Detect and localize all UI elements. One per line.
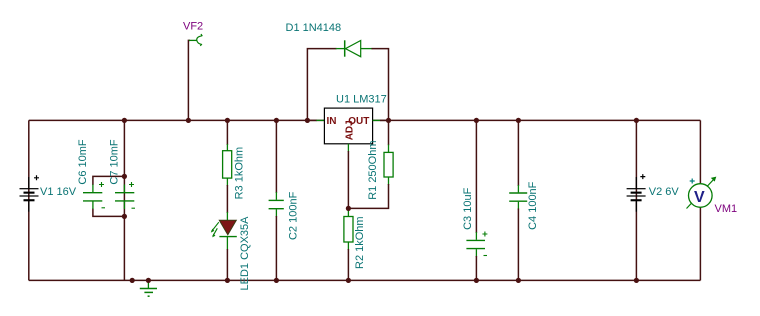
svg-text:V: V bbox=[694, 189, 705, 206]
resistor R1 bbox=[367, 140, 393, 199]
svg-text:IN: IN bbox=[327, 116, 337, 127]
svg-text:VF2: VF2 bbox=[183, 21, 203, 33]
svg-text:C3 10uF: C3 10uF bbox=[462, 187, 474, 229]
wire R1 top lead bbox=[388, 120, 390, 145]
node bottom left bbox=[130, 278, 135, 283]
battery V1 bbox=[20, 175, 77, 211]
node ground bbox=[146, 278, 151, 283]
resistor R2 bbox=[344, 208, 366, 269]
svg-text:U1 LM317: U1 LM317 bbox=[336, 94, 387, 106]
svg-text:VM1: VM1 bbox=[715, 203, 738, 215]
wire C3 branch top bbox=[475, 120, 477, 233]
wire R2 to bottom rail bbox=[347, 249, 349, 280]
wire D1 left riser bbox=[307, 49, 336, 121]
node top OUT bbox=[386, 118, 391, 123]
diode D1 bbox=[286, 22, 373, 57]
svg-text:ADJ: ADJ bbox=[344, 120, 355, 140]
wire R3 to LED bbox=[226, 185, 228, 213]
svg-text:D1 1N4148: D1 1N4148 bbox=[286, 22, 342, 34]
node bottom C3 bbox=[474, 278, 479, 283]
op-amp U1 LM317 regulator bbox=[307, 94, 388, 152]
ground bbox=[140, 280, 157, 296]
wire VM1 branch bottom bbox=[699, 207, 701, 280]
svg-text:C2 100nF: C2 100nF bbox=[287, 191, 299, 240]
node bottom R2 bbox=[346, 278, 351, 283]
wire ADJ down bbox=[347, 151, 349, 208]
node bottom C4 bbox=[516, 278, 521, 283]
node top C4 bbox=[516, 118, 521, 123]
capacitor C6 bbox=[77, 139, 105, 209]
svg-text:R3 1kOhm: R3 1kOhm bbox=[234, 147, 246, 200]
wire top rail bbox=[29, 119, 701, 121]
svg-text:C4 100nF: C4 100nF bbox=[527, 181, 539, 230]
wire C4 branch top bbox=[517, 120, 519, 186]
wire C7 branch vertical bbox=[123, 120, 125, 280]
LED LED1 bbox=[211, 212, 251, 291]
resistor R3 bbox=[223, 144, 246, 199]
node top V2 bbox=[634, 118, 639, 123]
wire R1 bottom to ADJ node bbox=[348, 184, 388, 208]
svg-text:V2 6V: V2 6V bbox=[649, 186, 680, 198]
node bottom C2 bbox=[274, 278, 279, 283]
node top IN bbox=[305, 118, 310, 123]
wire C2 branch top bbox=[275, 120, 277, 193]
battery V2 bbox=[627, 174, 680, 212]
svg-text:V1 16V: V1 16V bbox=[40, 186, 77, 198]
capacitor C4 bbox=[509, 181, 539, 230]
node ADJ bbox=[346, 206, 351, 211]
wire V2 branch bbox=[635, 120, 637, 280]
svg-text:LED1 CQX35A: LED1 CQX35A bbox=[239, 216, 251, 291]
svg-text:R1 250Ohm: R1 250Ohm bbox=[367, 140, 379, 199]
node bottom V2 bbox=[634, 278, 639, 283]
node bottom LED bbox=[225, 278, 230, 283]
svg-text:R2 1kOhm: R2 1kOhm bbox=[354, 216, 366, 269]
svg-text:C6 10mF: C6 10mF bbox=[77, 139, 89, 185]
probe VF2 bbox=[183, 21, 203, 46]
wire C6 bottom connector bbox=[93, 209, 125, 217]
wire C4 branch bottom bbox=[517, 209, 519, 281]
wire C3 branch bottom bbox=[475, 256, 477, 280]
capacitor C2 bbox=[269, 191, 300, 240]
node C6 bottom bbox=[122, 214, 127, 219]
wire bottom rail bbox=[29, 279, 701, 281]
wire left vertical (V1 branch) bbox=[28, 120, 30, 280]
voltmeter VM1 bbox=[687, 177, 738, 215]
wire C6 top connector bbox=[93, 176, 125, 185]
wire D1 right riser bbox=[372, 49, 389, 121]
node top C3 bbox=[474, 118, 479, 123]
node top C2 bbox=[274, 118, 279, 123]
node C6 top bbox=[122, 174, 127, 179]
wire VF2 stem bbox=[188, 40, 190, 120]
wire LED to bottom rail bbox=[226, 249, 228, 280]
capacitor C3 bbox=[462, 187, 487, 257]
wire R3/LED branch bbox=[226, 120, 228, 145]
svg-text:C7 10mF: C7 10mF bbox=[109, 139, 121, 185]
wire C2 branch bottom bbox=[275, 216, 277, 280]
node top R3 bbox=[225, 118, 230, 123]
wire VM1 branch top bbox=[699, 120, 701, 184]
node top C7 bbox=[122, 118, 127, 123]
node top VF2 bbox=[186, 118, 191, 123]
capacitor C7 bbox=[109, 139, 135, 209]
